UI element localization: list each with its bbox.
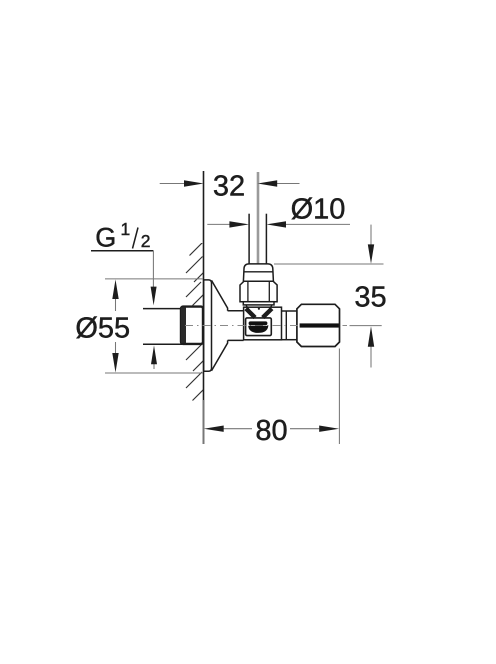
handle slot	[300, 323, 339, 327]
logo front plate	[246, 318, 272, 336]
compression collar	[243, 264, 273, 281]
wall face line	[203, 171, 205, 444]
rosette neck cylinder	[228, 311, 244, 341]
dimension 80	[204, 349, 340, 445]
dimension diameter 55	[105, 279, 203, 373]
dimension diameter 10	[207, 221, 350, 227]
svg-text:32: 32	[213, 171, 245, 203]
svg-text:1: 1	[121, 219, 131, 239]
threaded tailpiece tube	[143, 309, 182, 345]
pipe center bore band	[257, 172, 260, 270]
G1/2 leader arrows	[151, 251, 157, 369]
funnel outline	[246, 305, 272, 315]
dimension 35	[274, 225, 384, 368]
handle knob	[297, 304, 340, 346]
funnel wedges	[248, 310, 271, 316]
outlet neck	[282, 311, 297, 340]
copper pipe	[249, 214, 266, 264]
svg-text:80: 80	[255, 415, 287, 447]
wall hatching	[186, 242, 204, 401]
compression hex nut	[240, 281, 277, 302]
logo dark bowl	[248, 326, 268, 333]
outlet ring step	[285, 311, 287, 339]
svg-text:Ø55: Ø55	[75, 313, 130, 345]
dimension 32	[160, 180, 300, 186]
svg-text:2: 2	[141, 231, 151, 251]
G1/2 thread block	[181, 307, 203, 344]
rosette flange	[204, 280, 212, 371]
horizontal centerline	[185, 325, 347, 327]
svg-text:G: G	[95, 222, 116, 252]
logo dark bar	[249, 321, 268, 325]
nut lower cylinder	[243, 302, 274, 305]
svg-text:Ø10: Ø10	[291, 194, 346, 226]
rosette cone	[212, 280, 228, 370]
svg-text:35: 35	[354, 282, 386, 314]
valve body block	[244, 307, 282, 340]
